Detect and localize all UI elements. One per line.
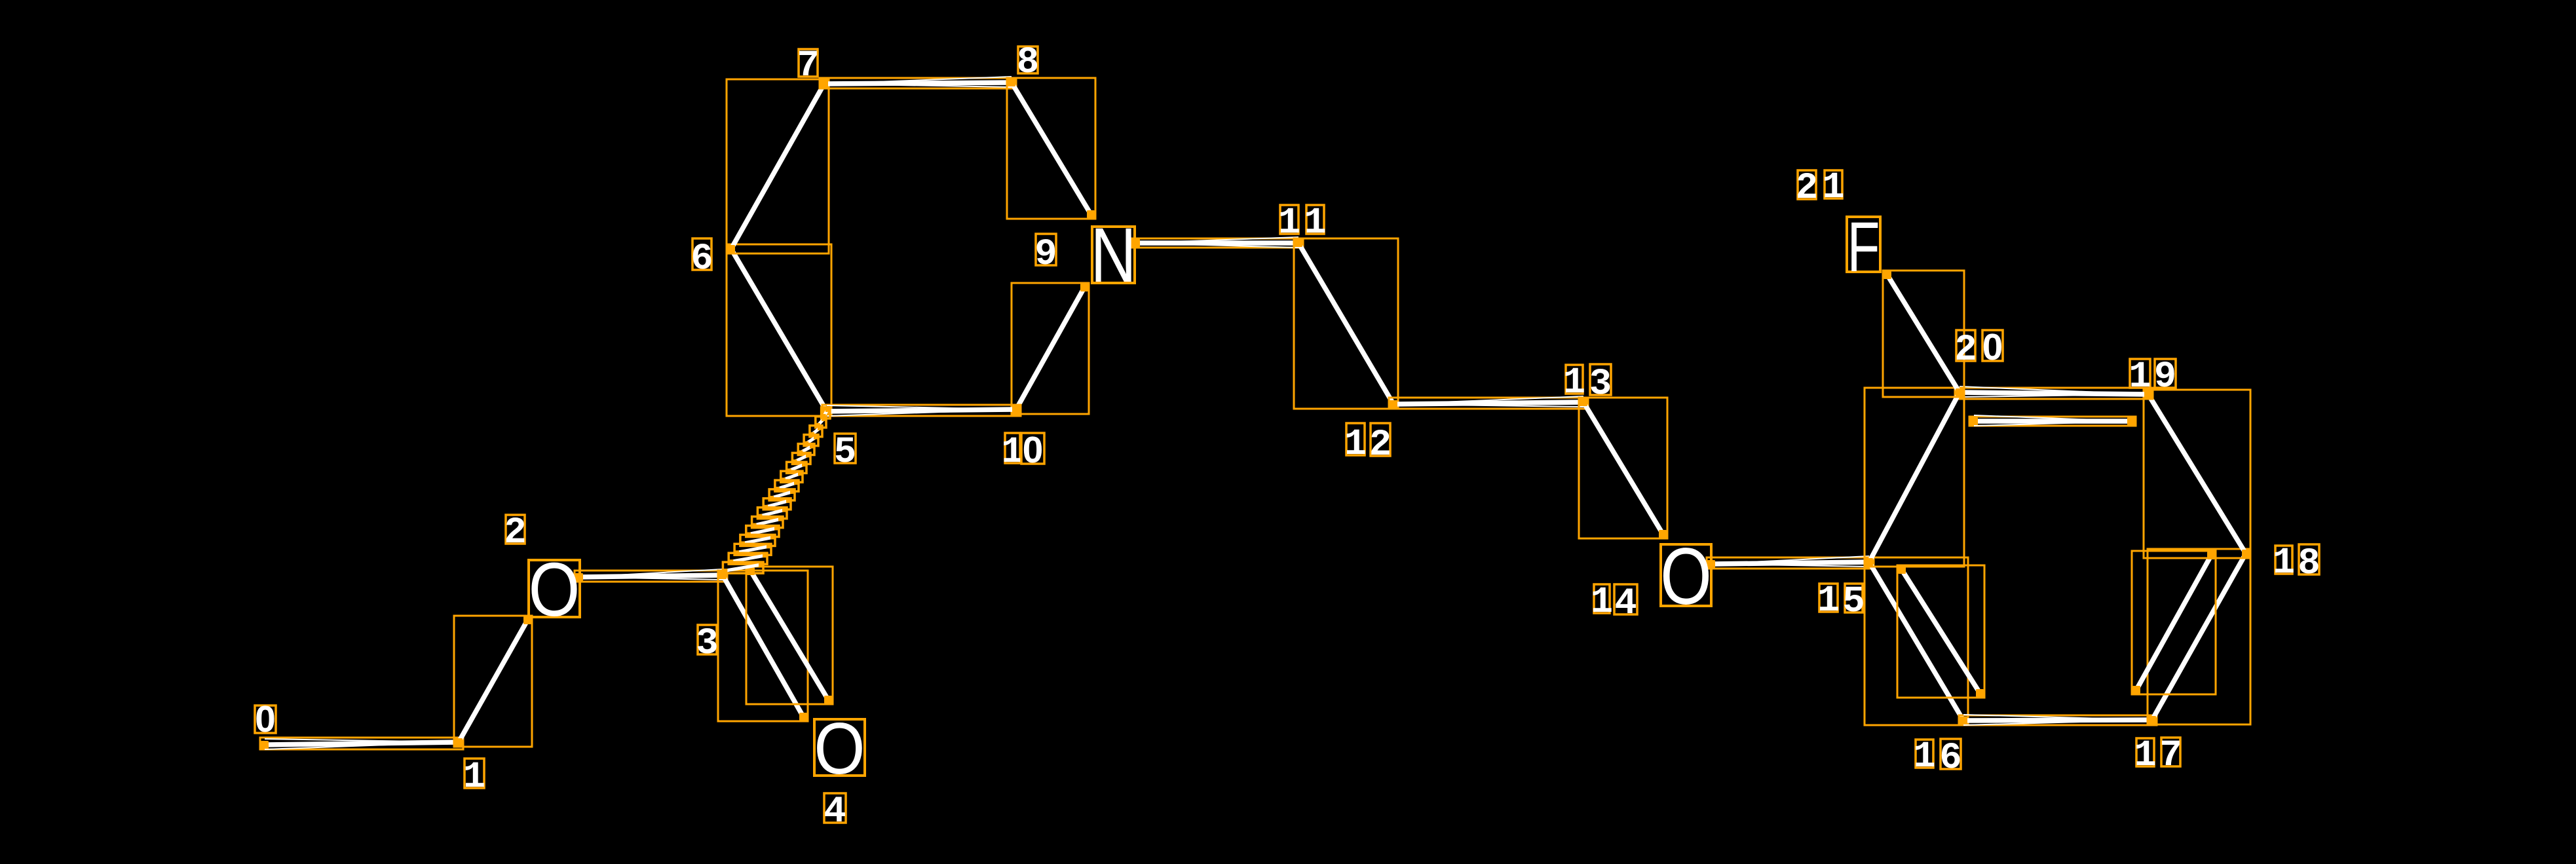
label 3 bbox=[696, 623, 718, 665]
label 5 bbox=[834, 432, 856, 474]
bond 0-1 bbox=[260, 738, 463, 749]
label 20 bbox=[1954, 326, 2003, 371]
bond 18-19 bbox=[2144, 390, 2250, 558]
bond 15-16 inner line bbox=[1897, 565, 1984, 698]
label 6 bbox=[691, 238, 713, 280]
label 4 bbox=[824, 791, 846, 833]
svg-text:5: 5 bbox=[834, 432, 856, 474]
label 13 bbox=[1563, 362, 1612, 405]
svg-text:1: 1 bbox=[1344, 424, 1367, 466]
svg-text:1: 1 bbox=[1913, 736, 1935, 778]
bond 17-18 bbox=[2148, 549, 2250, 724]
label 8 bbox=[1017, 42, 1039, 84]
svg-text:2: 2 bbox=[1369, 424, 1392, 466]
atom 9 (N) bbox=[1091, 212, 1137, 298]
svg-text:N: N bbox=[1091, 212, 1137, 298]
bond 10-5 bbox=[822, 405, 1021, 416]
svg-text:7: 7 bbox=[797, 45, 819, 87]
bond 5-3 (hashed stereo bond, dashes with boxes) bbox=[723, 407, 830, 573]
label 15 bbox=[1817, 580, 1865, 623]
svg-text:9: 9 bbox=[2154, 356, 2176, 398]
label 9 bbox=[1034, 234, 1057, 276]
svg-text:1: 1 bbox=[463, 757, 485, 798]
svg-text:1: 1 bbox=[1563, 362, 1585, 404]
label 10 bbox=[1001, 429, 1044, 474]
svg-text:0: 0 bbox=[255, 698, 276, 740]
svg-text:3: 3 bbox=[696, 623, 718, 665]
svg-text:O: O bbox=[529, 548, 580, 633]
svg-text:F: F bbox=[1847, 208, 1880, 287]
bond 11-12 bbox=[1294, 238, 1398, 409]
svg-text:5: 5 bbox=[1842, 581, 1865, 623]
svg-text:3: 3 bbox=[1589, 364, 1612, 405]
svg-text:6: 6 bbox=[691, 238, 713, 280]
label 21 bbox=[1796, 167, 1845, 210]
svg-text:4: 4 bbox=[1614, 583, 1637, 625]
bond 6-7 bbox=[727, 79, 829, 254]
bond 5-6 bbox=[727, 244, 831, 416]
label 0 bbox=[255, 698, 276, 740]
svg-text:O: O bbox=[1660, 531, 1712, 622]
bond 20-21 bbox=[1883, 271, 1964, 397]
svg-text:1: 1 bbox=[2129, 356, 2151, 398]
svg-text:8: 8 bbox=[1017, 42, 1039, 84]
bond 2-3 bbox=[575, 569, 727, 582]
bond 1-2 bbox=[454, 616, 532, 747]
svg-text:1: 1 bbox=[2273, 542, 2295, 584]
bond 20-15 bbox=[1865, 388, 1964, 567]
bond 7-8 bbox=[820, 77, 1016, 88]
svg-text:6: 6 bbox=[1939, 738, 1961, 779]
svg-text:1: 1 bbox=[1304, 202, 1326, 244]
atom 21 (F) bbox=[1847, 208, 1880, 287]
svg-text:9: 9 bbox=[1034, 234, 1057, 276]
svg-text:1: 1 bbox=[1817, 580, 1840, 622]
svg-text:1: 1 bbox=[1822, 167, 1844, 209]
svg-text:4: 4 bbox=[824, 791, 846, 833]
bond 8-9 bbox=[1007, 78, 1095, 219]
atom 4 (O) bbox=[814, 708, 865, 789]
label 7 bbox=[797, 45, 819, 87]
bond 9-10 bbox=[1012, 283, 1089, 414]
label 17 bbox=[2134, 735, 2182, 777]
svg-text:2: 2 bbox=[504, 512, 526, 554]
label 1 bbox=[463, 757, 485, 798]
bond 15-16 bbox=[1865, 557, 1968, 725]
label 2 bbox=[504, 512, 526, 554]
svg-text:7: 7 bbox=[2159, 735, 2182, 777]
svg-text:0: 0 bbox=[1982, 326, 2003, 368]
svg-text:0: 0 bbox=[1023, 429, 1044, 471]
label 16 bbox=[1913, 736, 1961, 779]
label 11 bbox=[1278, 202, 1327, 244]
bond 19-20 bbox=[1955, 386, 2153, 399]
svg-text:1: 1 bbox=[1278, 202, 1300, 244]
atom 2 (O) bbox=[529, 548, 580, 633]
label 19 bbox=[2129, 356, 2176, 398]
bond 14-15 bbox=[1707, 556, 1874, 569]
svg-text:1: 1 bbox=[1591, 582, 1613, 624]
bond 12-13 bbox=[1389, 396, 1588, 409]
bond 19-20 inner line bbox=[1969, 415, 2136, 426]
bond 3-4 (C=O line 1) bbox=[718, 571, 808, 721]
svg-text:2: 2 bbox=[1796, 168, 1818, 210]
label 18 bbox=[2273, 542, 2320, 585]
svg-text:2: 2 bbox=[1954, 329, 1977, 371]
svg-text:O: O bbox=[814, 708, 865, 789]
atom 14 (O) bbox=[1660, 531, 1712, 622]
bond 17-18 inner line bbox=[2132, 551, 2216, 694]
svg-text:8: 8 bbox=[2298, 543, 2320, 585]
bond 3-4 (C=O line 2) bbox=[746, 567, 833, 704]
bond 16-17 bbox=[1959, 715, 2157, 725]
bond 9-11 bbox=[1131, 237, 1303, 248]
bond 13-14 bbox=[1579, 398, 1667, 538]
label 12 bbox=[1344, 423, 1392, 466]
svg-text:1: 1 bbox=[2134, 735, 2156, 777]
label 14 bbox=[1591, 582, 1637, 625]
